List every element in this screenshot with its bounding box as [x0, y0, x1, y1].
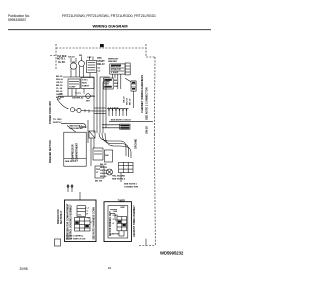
control terminal block: [75, 218, 91, 232]
svg-text:CONTROL HOUSING ASSEMBLY: CONTROL HOUSING ASSEMBLY: [69, 204, 72, 240]
power cord plug rings: [70, 108, 74, 112]
svg-text:GROUND: GROUND: [136, 138, 138, 149]
svg-text:COMPARTMENT: COMPARTMENT: [76, 142, 79, 161]
svg-text:OR-18: OR-18: [124, 96, 126, 103]
svg-text:GN: GN: [114, 86, 118, 88]
defrost heater element mark: [111, 65, 121, 67]
svg-text:GN-18: GN-18: [100, 173, 107, 175]
cabinet left edge: [55, 44, 57, 70]
bottom labels in box: [66, 236, 86, 241]
svg-text:CABINET WIRING HARNESS: CABINET WIRING HARNESS: [140, 75, 144, 113]
note text above timer box: [124, 184, 138, 189]
svg-text:SUPPLY: SUPPLY: [53, 122, 62, 124]
ground wire to cabinet: [145, 239, 147, 246]
svg-text:SEE NOTE 8 HARNESS CONN: SEE NOTE 8 HARNESS CONN: [92, 207, 95, 240]
wire top-left bus: [63, 76, 94, 78]
svg-text:DEFROST TIMER ASSEMBLY: DEFROST TIMER ASSEMBLY: [133, 205, 136, 237]
svg-text:FAN: FAN: [104, 83, 109, 86]
terminal row: [109, 109, 127, 116]
connector block (dark): [120, 124, 130, 129]
svg-text:BK-18: BK-18: [130, 98, 132, 105]
compressor relay box: [68, 79, 80, 89]
svg-text:WIRING DIAGRAM: WIRING DIAGRAM: [92, 23, 128, 28]
defrost timer box outer: [104, 202, 131, 242]
compressor compartment box: [64, 132, 86, 166]
svg-text:FRZ: FRZ: [96, 169, 101, 171]
svg-text:REFRIGERATOR COMPARTMENT: REFRIGERATOR COMPARTMENT: [66, 203, 69, 240]
svg-text:FREEZER SECTION: FREEZER SECTION: [49, 140, 52, 163]
wire from terminal board down: [120, 173, 122, 182]
lamp: [107, 169, 113, 175]
svg-text:PTC: PTC: [97, 58, 102, 60]
svg-text:FRESH FOOD: FRESH FOOD: [58, 209, 60, 224]
defrost heater box: [110, 64, 125, 74]
svg-text:S M C: S M C: [82, 80, 88, 82]
svg-text:5995338537: 5995338537: [8, 18, 27, 22]
svg-text:SEE NOTE 7: SEE NOTE 7: [65, 161, 79, 163]
svg-text:BK-18: BK-18: [100, 164, 107, 166]
defrost thermostat narrow box: [125, 63, 130, 75]
long wire to cabinet edge: [109, 120, 153, 122]
lower bus wire: [58, 95, 95, 97]
note rows mid-left: [69, 126, 83, 131]
svg-text:LIGHT SWITCH GN: LIGHT SWITCH GN: [66, 238, 86, 240]
cabinet top edge: [56, 47, 146, 49]
svg-text:BK-16: BK-16: [56, 76, 63, 78]
svg-text:SEE NOTE 2 CONNECTOR: SEE NOTE 2 CONNECTOR: [145, 87, 149, 120]
rotated legend inside left: [66, 203, 72, 240]
svg-text:1 2 3 4 5 6: 1 2 3 4 5 6: [108, 107, 119, 110]
rotated label outside left: [58, 209, 63, 224]
cold control side labels: [87, 208, 93, 225]
svg-text:COMP: COMP: [69, 87, 76, 89]
svg-text:NOTE 1: NOTE 1: [57, 59, 66, 61]
svg-text:RELAY: RELAY: [97, 63, 105, 66]
svg-text:SEE NOTE 6 GN-18: SEE NOTE 6 GN-18: [111, 120, 132, 122]
svg-text:START: START: [82, 85, 90, 88]
svg-text:BK GN: BK GN: [95, 181, 102, 183]
cabinet right step: [145, 44, 147, 57]
svg-text:10: 10: [108, 266, 112, 270]
svg-text:DEFROST: DEFROST: [108, 59, 119, 61]
refrigerator compartment box: [65, 200, 97, 242]
terminal row header wire: [107, 108, 129, 110]
svg-text:POWER CORD 120V: POWER CORD 120V: [49, 101, 52, 124]
box bottom divider: [64, 158, 86, 160]
defrost timer box inner: [108, 206, 128, 238]
overload protector: [70, 63, 76, 69]
defrost heater label: [108, 59, 119, 64]
light switch box: [93, 148, 103, 160]
connector pins into lower-left box: [68, 184, 72, 192]
run capacitor C1: [87, 60, 97, 72]
cabinet outline (dashed): [50, 44, 156, 246]
leader into box: [67, 126, 76, 133]
rotated text outside right of timer: [133, 205, 136, 237]
svg-text:RD-18: RD-18: [100, 176, 107, 178]
power supply label: [53, 119, 62, 124]
header rule: [8, 29, 211, 31]
wires from defrost to fan row: [112, 74, 133, 108]
svg-text:20/98: 20/98: [20, 267, 28, 271]
rotated text inner left: [110, 211, 112, 236]
svg-text:CAP: CAP: [87, 56, 92, 59]
svg-text:18S BPL02: 18S BPL02: [72, 98, 84, 100]
svg-text:HEATER: HEATER: [108, 60, 117, 63]
start relay: [79, 61, 85, 67]
splice box: [89, 131, 95, 138]
svg-text:DEF: DEF: [121, 207, 126, 209]
top-left cluster labels: [57, 55, 67, 64]
node label at top edge: [100, 44, 104, 47]
svg-text:GN-18: GN-18: [145, 126, 149, 134]
svg-text:V 60HZ: V 60HZ: [111, 72, 119, 74]
power cord run: [81, 110, 94, 112]
diagonal wire: [125, 78, 131, 81]
cold control box: [77, 206, 86, 217]
terminal board grid: [119, 162, 133, 172]
rotated legend inside right: [92, 207, 95, 240]
cabinet right edge: [154, 57, 157, 134]
svg-text:OR-18: OR-18: [100, 170, 107, 172]
labels under cluster: [57, 93, 90, 103]
svg-text:WH: WH: [86, 101, 90, 103]
svg-text:SEE NOTE 5: SEE NOTE 5: [124, 184, 138, 186]
ballast box: [55, 239, 61, 246]
hanging wire labels: [124, 96, 132, 105]
svg-text:2 WH: 2 WH: [113, 215, 119, 217]
svg-text:CAM SW: CAM SW: [110, 233, 119, 236]
fan box inner marks: [104, 79, 112, 81]
labels below terminal board: [95, 175, 126, 183]
wire into refrigerator box: [79, 192, 81, 200]
wire sweep curves: [99, 133, 131, 158]
svg-text:TO 120V: TO 120V: [53, 119, 62, 121]
svg-text:WH-18: WH-18: [127, 97, 129, 105]
svg-text:FRT21LRGW0, FRT21LRGW1, FRT21L: FRT21LRGW0, FRT21LRGW1, FRT21LRGD0, FRT2…: [62, 14, 156, 18]
timer contact block: [117, 217, 127, 231]
power cord wire: [57, 99, 69, 109]
wires into connector block: [102, 124, 120, 126]
label rows left of terminal board: [100, 164, 108, 178]
svg-text:15A SEE: 15A SEE: [57, 55, 67, 58]
svg-text:WD5995232: WD5995232: [160, 250, 184, 255]
rotated text right of sweep: [136, 138, 138, 149]
svg-text:CONNECTOR: CONNECTOR: [124, 186, 138, 188]
svg-text:RUN: RUN: [82, 83, 87, 85]
svg-text:TML BOARD: TML BOARD: [112, 175, 126, 178]
svg-text:WH-16: WH-16: [56, 79, 64, 81]
thermal cutout circle: [86, 94, 91, 99]
fan cluster side marks: [114, 80, 118, 88]
svg-text:GN-18: GN-18: [68, 57, 75, 59]
svg-text:YL-18: YL-18: [56, 88, 63, 90]
svg-text:OL RC: OL RC: [58, 62, 65, 64]
thermostat tall box: [131, 81, 136, 91]
svg-text:COLD CONTROL: COLD CONTROL: [66, 236, 84, 238]
timer small labels: [113, 211, 119, 225]
evaporator fan cluster: [104, 78, 114, 89]
svg-text:RD: RD: [79, 55, 83, 57]
freezer light box: [95, 166, 104, 178]
cabinet harness rotated note: [140, 75, 149, 134]
cabinet bottom edge: [139, 245, 156, 247]
svg-text:BK: BK: [114, 80, 118, 82]
timer internal wires: [110, 210, 124, 237]
terminal label column: [56, 76, 64, 99]
cluster top labels: [68, 55, 101, 73]
svg-text:1 BK: 1 BK: [113, 211, 118, 213]
svg-text:SEE NOTE 4: SEE NOTE 4: [112, 178, 126, 181]
door switch box: [105, 150, 113, 162]
svg-text:START: START: [97, 60, 105, 63]
svg-text:575W 120: 575W 120: [111, 69, 122, 71]
wire to compressor box: [61, 124, 86, 128]
svg-text:BR-18: BR-18: [56, 85, 63, 87]
svg-text:GN: GN: [59, 94, 63, 96]
bundle cross ties: [94, 108, 106, 114]
svg-text:CTL: CTL: [78, 214, 83, 216]
start device box: [81, 78, 94, 89]
svg-text:OR-18: OR-18: [56, 82, 63, 84]
svg-text:SECTION LT: SECTION LT: [61, 210, 63, 224]
svg-text:WH: WH: [114, 83, 118, 85]
vertical wire bundle: [94, 89, 106, 133]
cluster stub wires: [68, 57, 110, 97]
capacitor labels: [97, 58, 105, 66]
svg-text:DEF HTR: DEF HTR: [111, 66, 121, 68]
cabinet left tick: [50, 55, 56, 57]
svg-text:CONN: CONN: [79, 127, 86, 129]
wire drop left of switches: [87, 120, 89, 143]
left rotated legend upper: [49, 101, 52, 163]
